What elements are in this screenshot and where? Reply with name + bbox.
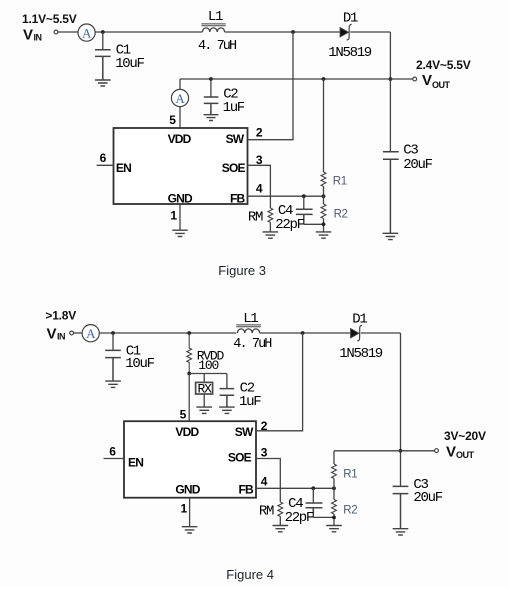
- node junction RVDD: [187, 331, 191, 335]
- svg-text:5: 5: [169, 113, 176, 127]
- node junction C4: [302, 194, 306, 198]
- wire output rail (right): [389, 32, 391, 151]
- node junction VDD branch: [187, 372, 191, 376]
- wire VDD corner down to ammeter: [179, 79, 181, 89]
- wire R1 top branch: [323, 79, 325, 172]
- svg-text:V: V: [23, 27, 33, 44]
- output terminal: [435, 449, 439, 453]
- diode D1: [339, 311, 383, 361]
- svg-text:RM: RM: [248, 210, 263, 226]
- wire ammeter to pin 5: [179, 107, 181, 128]
- svg-text:SW: SW: [226, 132, 245, 146]
- wire R2 to ground: [333, 514, 335, 525]
- node junction C1: [101, 30, 105, 34]
- wire ammeter to inductor: [95, 31, 202, 33]
- wire C1 stub: [112, 333, 114, 350]
- svg-text:22pF: 22pF: [285, 510, 314, 526]
- node junction R2 bottom: [322, 222, 326, 226]
- svg-text:3V~20V: 3V~20V: [444, 429, 486, 443]
- wire R1 to junction: [333, 478, 335, 488]
- svg-text:5: 5: [180, 408, 187, 422]
- wire GND pin stub: [179, 204, 181, 230]
- svg-text:4. 7uH: 4. 7uH: [233, 337, 272, 352]
- svg-text:10uF: 10uF: [115, 56, 144, 72]
- svg-text:1uF: 1uF: [223, 100, 245, 116]
- inductor L1: [198, 9, 237, 54]
- input terminal: [70, 331, 74, 335]
- svg-text:RM: RM: [259, 504, 274, 520]
- capacitor C2: [204, 86, 245, 115]
- capacitor C1: [105, 343, 154, 381]
- wire C1 stub: [102, 32, 104, 49]
- svg-text:VDD: VDD: [175, 425, 199, 439]
- svg-text:3: 3: [261, 446, 268, 460]
- node junction VOUT: [389, 77, 393, 81]
- svg-text:4: 4: [261, 474, 268, 488]
- svg-text:A: A: [86, 326, 96, 341]
- node junction R1 branch: [322, 77, 326, 81]
- svg-text:Figure 3: Figure 3: [218, 263, 266, 278]
- resistor R1: [332, 464, 358, 481]
- node junction R1/R2: [332, 486, 336, 490]
- node junction SW branch: [291, 30, 295, 34]
- svg-text:V: V: [47, 325, 57, 342]
- svg-text:R2: R2: [334, 209, 348, 221]
- wire RM to ground: [269, 222, 271, 231]
- ground (IC GND): [182, 527, 198, 533]
- svg-text:IN: IN: [34, 33, 42, 43]
- capacitor C4: [285, 496, 323, 526]
- svg-text:D1: D1: [352, 311, 367, 327]
- ground (C3): [393, 529, 409, 535]
- svg-text:Figure 4: Figure 4: [226, 567, 274, 582]
- svg-text:R2: R2: [343, 504, 357, 516]
- svg-text:IN: IN: [57, 331, 65, 341]
- IC U1 body: [114, 128, 248, 204]
- inductor L1: [233, 311, 272, 352]
- svg-text:1N5819: 1N5819: [328, 45, 372, 61]
- svg-text:L1: L1: [208, 9, 223, 25]
- wire SOE to RM column: [248, 165, 271, 208]
- svg-text:OUT: OUT: [432, 80, 451, 90]
- capacitor C4: [275, 203, 312, 233]
- wire C4 stub: [303, 196, 305, 209]
- svg-text:GND: GND: [168, 191, 193, 205]
- ground (R2/C4): [316, 232, 332, 238]
- svg-text:4. 7uH: 4. 7uH: [198, 39, 237, 54]
- node junction C4: [311, 486, 315, 490]
- svg-text:10uF: 10uF: [125, 356, 154, 372]
- ammeter A1: [78, 24, 95, 41]
- svg-text:4: 4: [256, 181, 263, 195]
- wire ammeter to inductor: [99, 332, 236, 334]
- svg-text:A: A: [82, 26, 92, 41]
- ammeter A3: [82, 325, 99, 342]
- svg-text:A: A: [175, 91, 185, 106]
- wire diode to rail corner: [350, 31, 390, 33]
- wire C4 bottom to R2 bottom: [313, 516, 334, 518]
- capacitor C1: [95, 43, 145, 80]
- svg-text:SW: SW: [235, 425, 254, 439]
- node VOUT label (3V~20V): [444, 429, 486, 460]
- svg-text:L1: L1: [243, 311, 258, 327]
- svg-text:V: V: [446, 443, 456, 460]
- svg-text:V: V: [422, 72, 432, 89]
- wire pin 5: [188, 374, 190, 422]
- wire SOE to RM column: [256, 459, 280, 503]
- node VIN label (1.1V~5.5V): [22, 12, 77, 44]
- wire SW pin to vertical: [248, 32, 294, 140]
- wire FB line: [248, 195, 324, 197]
- ground (RM): [273, 526, 289, 532]
- wire C4 bottom to R2 bottom: [304, 223, 324, 225]
- svg-text:1: 1: [181, 501, 188, 515]
- resistor R1: [321, 172, 347, 188]
- ground (C2): [204, 115, 219, 121]
- resistor RM: [248, 208, 273, 226]
- wire junction to R2: [333, 488, 335, 499]
- wire GND pin stub: [189, 498, 191, 527]
- wire EN stub: [104, 458, 125, 460]
- wire terminal to ammeter: [58, 31, 78, 33]
- wire C2 stub: [210, 79, 212, 97]
- svg-text:FB: FB: [230, 191, 246, 205]
- node junction R2 bottom: [332, 516, 336, 520]
- capacitor C3: [393, 477, 443, 528]
- wire C2 stub: [226, 374, 228, 389]
- IC U2 body: [124, 421, 256, 498]
- svg-text:>1.8V: >1.8V: [45, 309, 76, 323]
- node VIN label (>1.8V): [45, 309, 76, 343]
- resistor RM: [259, 502, 283, 520]
- node junction C1: [111, 331, 115, 335]
- svg-text:OUT: OUT: [456, 450, 475, 460]
- wire SW pin to vertical: [256, 333, 303, 431]
- svg-text:SOE: SOE: [228, 451, 252, 465]
- wire R2 to ground: [323, 218, 325, 231]
- wire inductor to diode: [260, 332, 351, 334]
- svg-text:2: 2: [256, 125, 263, 139]
- wire FB line: [256, 487, 334, 489]
- wire VDD branch horizontal: [189, 373, 227, 375]
- ground (C1): [95, 80, 111, 86]
- wire VDD/output horizontal line: [180, 78, 413, 80]
- svg-text:1: 1: [170, 208, 177, 222]
- resistor R2: [332, 500, 358, 517]
- svg-text:SOE: SOE: [222, 161, 246, 175]
- resistor RVDD: [187, 333, 225, 374]
- svg-text:R1: R1: [333, 176, 347, 188]
- wire output rail (right): [400, 333, 402, 486]
- svg-text:1.1V~5.5V: 1.1V~5.5V: [22, 12, 77, 26]
- svg-text:20uF: 20uF: [403, 157, 432, 173]
- ground (C3): [383, 233, 399, 239]
- ground (RX): [196, 407, 212, 413]
- ground (IC GND): [172, 230, 188, 236]
- wire inductor to diode: [225, 31, 341, 33]
- node VOUT label (2.4V~5.5V): [416, 58, 471, 90]
- svg-text:1N5819: 1N5819: [339, 346, 383, 362]
- wire terminal to ammeter: [74, 332, 83, 334]
- ground (R2/C4): [326, 526, 342, 532]
- ground (C2): [219, 407, 235, 413]
- svg-text:GND: GND: [175, 483, 200, 497]
- svg-text:VDD: VDD: [168, 132, 192, 146]
- wire diode to rail corner: [361, 332, 401, 334]
- diode D1: [328, 10, 372, 60]
- ground (C1): [105, 381, 121, 387]
- svg-text:6: 6: [100, 151, 107, 165]
- svg-text:D1: D1: [343, 10, 358, 26]
- wire R1 to junction: [323, 186, 325, 196]
- resistor R2: [321, 204, 347, 221]
- capacitor C2: [220, 381, 262, 410]
- wire R1 top branch: [333, 451, 335, 464]
- wire RX stub: [203, 374, 205, 383]
- svg-text:1uF: 1uF: [239, 394, 261, 410]
- svg-text:22pF: 22pF: [275, 217, 304, 233]
- ground (RM): [263, 232, 279, 238]
- svg-text:100: 100: [198, 358, 218, 373]
- svg-text:EN: EN: [128, 456, 143, 470]
- input terminal: [54, 30, 58, 34]
- svg-text:20uF: 20uF: [413, 490, 442, 506]
- node junction VOUT: [399, 449, 403, 453]
- wire RM to ground: [279, 516, 281, 525]
- ammeter A2: [171, 89, 188, 106]
- svg-text:R1: R1: [343, 469, 357, 481]
- svg-text:2.4V~5.5V: 2.4V~5.5V: [416, 58, 471, 72]
- output terminal: [413, 77, 417, 81]
- node junction R1/R2: [322, 194, 326, 198]
- wire C4 stub: [312, 488, 314, 502]
- wire junction to R2: [323, 196, 325, 204]
- wire EN stub: [97, 164, 114, 166]
- node junction SW branch: [301, 331, 305, 335]
- svg-text:FB: FB: [239, 483, 255, 497]
- component RX box: [196, 382, 213, 397]
- svg-text:6: 6: [109, 445, 116, 459]
- capacitor C3: [383, 143, 433, 233]
- svg-text:EN: EN: [116, 161, 131, 175]
- wire RX to ground: [203, 394, 205, 407]
- wire output horizontal line: [334, 450, 435, 452]
- node junction C2: [209, 77, 213, 81]
